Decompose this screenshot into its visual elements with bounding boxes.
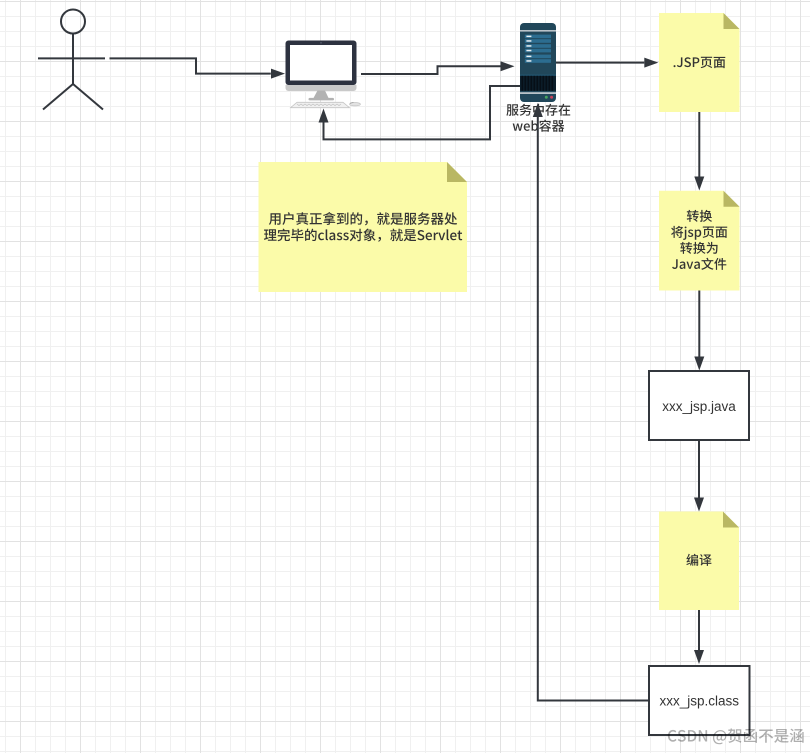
- box: xxx_jsp.class: [649, 666, 750, 735]
- wire: monitor to server: [361, 61, 515, 74]
- svg-text:xxx_jsp.class: xxx_jsp.class: [660, 694, 740, 709]
- note: JSP页面 sticky: [659, 13, 740, 112]
- actor: stick figure user: [38, 10, 105, 110]
- wire: server back to monitor: [319, 86, 521, 139]
- wire: compile note to class box: [694, 610, 704, 664]
- wire: server to JSP page note: [556, 58, 658, 68]
- wire: java box to compile note: [694, 440, 704, 512]
- svg-text:xxx_jsp.java: xxx_jsp.java: [662, 399, 736, 414]
- wire: class box back to server: [533, 103, 649, 701]
- server: web container tower: [520, 23, 556, 102]
- box: xxx_jsp.java: [649, 371, 749, 440]
- note: 转换 sticky (jsp to java): [659, 191, 740, 291]
- wire: JSP note to convert note: [694, 112, 704, 191]
- watermark: CSDN @贺函不是涵: [668, 728, 804, 744]
- note: 编译 sticky: [659, 512, 739, 611]
- wire: actor to monitor: [110, 58, 286, 78]
- note: servlet explanation sticky: [259, 162, 468, 292]
- wire: convert note to java box: [694, 291, 704, 371]
- label: server text 服务中存在 web容器: [506, 104, 570, 132]
- monitor: user computer: [286, 41, 361, 108]
